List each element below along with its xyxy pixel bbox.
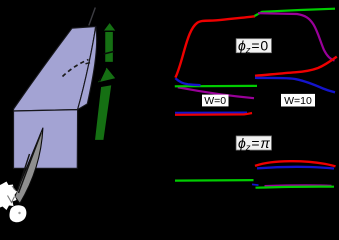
label box phi_z = pi bbox=[236, 136, 271, 150]
label box W=0 bbox=[202, 95, 229, 107]
plot row1 right: purple curve bbox=[258, 13, 335, 60]
plot row2 right: red curve bbox=[255, 161, 336, 166]
plot row1 left: green line bbox=[175, 85, 257, 88]
white blob lower bbox=[10, 205, 27, 222]
undeflected axis faint line bbox=[89, 8, 96, 26]
green arrow 1 dash mark bbox=[104, 51, 115, 54]
plot row2 left: blue line bbox=[175, 111, 247, 113]
cantilever beam: front face bbox=[14, 110, 78, 169]
label box phi_z = 0 bbox=[236, 39, 271, 53]
blob detail tick bbox=[12, 186, 16, 191]
svg-text:W=0: W=0 bbox=[204, 95, 226, 107]
tweezers short prong bbox=[18, 154, 30, 190]
plot row2 right: green line bbox=[256, 187, 335, 188]
plot row1 left: blue curve bbox=[175, 78, 200, 85]
tweezers prong inner shadow bbox=[19, 133, 42, 193]
green arrow 1 (top) head bbox=[103, 22, 117, 31]
label box W=10 bbox=[281, 94, 315, 107]
tweezers long prong bbox=[15, 128, 43, 204]
plot row2 left: red line bbox=[175, 113, 252, 115]
plot row1 right: green line bbox=[255, 9, 336, 16]
svg-text:W=10: W=10 bbox=[284, 95, 312, 107]
plot row1 left: red curve bbox=[175, 16, 255, 77]
svg-text:ϕz=0: ϕz=0 bbox=[238, 38, 268, 57]
blob detail dot bbox=[18, 212, 20, 214]
svg-text:ϕz=π: ϕz=π bbox=[238, 135, 270, 154]
green arrow 1 shaft bbox=[105, 31, 114, 62]
plot row1 left: purple curve bbox=[178, 87, 254, 98]
green arrow 2 shaft bbox=[94, 85, 112, 141]
cantilever beam: top face bbox=[14, 27, 96, 112]
plot row2 right: purple line bbox=[265, 184, 332, 187]
plot row1 right: red curve bbox=[255, 57, 337, 76]
plot row2 right: left stub blue bbox=[252, 183, 259, 186]
tick crossing edge bbox=[86, 63, 91, 64]
plot row1 right: blue curve bbox=[255, 78, 335, 93]
torsion dashed arc on top face bbox=[63, 60, 89, 77]
white blob upper (hand/cloud sketch) bbox=[0, 182, 17, 211]
cantilever beam: right end sliver bbox=[78, 27, 97, 110]
plot row2 left: green line bbox=[175, 179, 254, 182]
green arrow 2 (lower) head bbox=[97, 67, 117, 84]
blob detail chevron bbox=[8, 196, 15, 203]
green arrow 2 head slash bbox=[100, 69, 106, 82]
plot row2 right: blue curve bbox=[257, 167, 334, 169]
